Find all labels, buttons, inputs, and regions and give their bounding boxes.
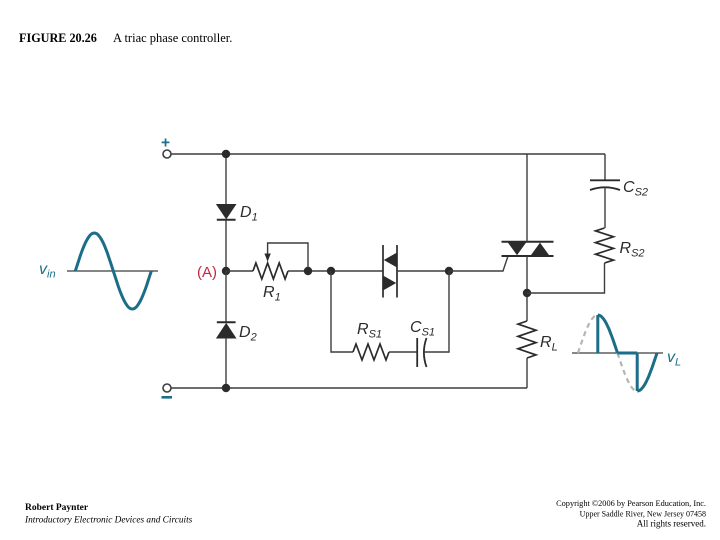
junction gate node xyxy=(445,267,453,275)
svg-text:Robert Paynter: Robert Paynter xyxy=(25,503,89,513)
wire R1 to diac xyxy=(288,270,383,272)
diac D3 xyxy=(383,245,397,298)
wire left branch D1 to node A xyxy=(225,220,227,271)
wire RS1 to CS1 xyxy=(389,351,417,353)
diode D2 xyxy=(217,322,236,338)
capacitor CS2 xyxy=(590,180,620,190)
node A junction xyxy=(222,267,230,275)
wire bottom rail xyxy=(171,387,527,389)
svg-text:RL: RL xyxy=(540,334,558,354)
wire gate lead to triac xyxy=(449,256,508,271)
footer copyright xyxy=(556,499,706,529)
title figure caption xyxy=(19,31,232,45)
waveform vL conducting portion xyxy=(598,315,657,391)
waveform vL blocked portion (dashed) xyxy=(578,315,637,391)
svg-text:+: + xyxy=(161,135,170,152)
svg-text:CS1: CS1 xyxy=(410,319,435,339)
label - polarity xyxy=(162,396,173,399)
waveform vin sine xyxy=(75,233,151,309)
svg-text:All rights reserved.: All rights reserved. xyxy=(637,519,706,529)
junction top rail / D1 branch xyxy=(222,150,230,158)
wire top rail xyxy=(171,153,605,155)
wire RL to bottom rail xyxy=(526,358,528,388)
wire left branch D1 upper xyxy=(225,154,227,205)
diode D1 xyxy=(217,205,236,220)
junction bottom rail / D2 branch xyxy=(222,384,230,392)
footer author credit xyxy=(24,503,193,526)
junction snubber RS1 tap xyxy=(327,267,335,275)
wire node A to R1 xyxy=(226,270,253,272)
svg-text:vin: vin xyxy=(39,261,56,281)
terminal positive (top left) xyxy=(163,150,171,158)
wire CS1 right leg xyxy=(424,271,450,352)
svg-text:R1: R1 xyxy=(263,284,281,304)
resistor RS2 xyxy=(596,228,614,263)
junction triac / RL / snubber2 xyxy=(523,289,531,297)
resistor RL xyxy=(518,321,536,358)
resistor RS1 xyxy=(353,344,389,360)
svg-text:(A): (A) xyxy=(197,264,217,281)
svg-text:Upper Saddle River, New Jersey: Upper Saddle River, New Jersey 07458 xyxy=(580,510,706,519)
wire triac cathode down to RL xyxy=(526,256,528,321)
waveform vL axis xyxy=(572,352,663,354)
svg-text:Copyright ©2006 by Pearson Edu: Copyright ©2006 by Pearson Education, In… xyxy=(556,499,706,508)
svg-text:D2: D2 xyxy=(239,324,257,344)
wire snubber1 left leg xyxy=(331,271,353,352)
svg-text:vL: vL xyxy=(667,349,681,369)
wire node A to D2 xyxy=(225,271,227,322)
wire CS2 to RS2 xyxy=(604,187,606,228)
svg-text:RS1: RS1 xyxy=(357,321,382,341)
wire snubber2 bottom leg xyxy=(527,263,605,293)
junction R1 wiper tap xyxy=(304,267,312,275)
triac Q1 xyxy=(502,242,554,256)
svg-text:RS2: RS2 xyxy=(620,240,645,260)
R1 wiper arrow head xyxy=(264,254,270,262)
capacitor CS1 xyxy=(417,338,426,367)
svg-text:CS2: CS2 xyxy=(623,179,648,199)
resistor R1 (potentiometer body) xyxy=(253,263,288,279)
wire D2 to bottom rail xyxy=(225,338,227,388)
wire diac to gate node xyxy=(397,270,449,272)
svg-text:Introductory Electronic Device: Introductory Electronic Devices and Circ… xyxy=(24,516,193,526)
wire triac anode to top rail xyxy=(526,154,528,242)
svg-text:A triac phase controller.: A triac phase controller. xyxy=(113,31,232,45)
svg-text:FIGURE 20.26: FIGURE 20.26 xyxy=(19,31,97,45)
waveform vin axis xyxy=(67,270,158,272)
svg-text:D1: D1 xyxy=(240,204,258,224)
wire snubber2 top leg xyxy=(604,154,606,180)
wire R1 wiper bypass xyxy=(268,243,308,271)
terminal negative (bottom left) xyxy=(163,384,171,392)
